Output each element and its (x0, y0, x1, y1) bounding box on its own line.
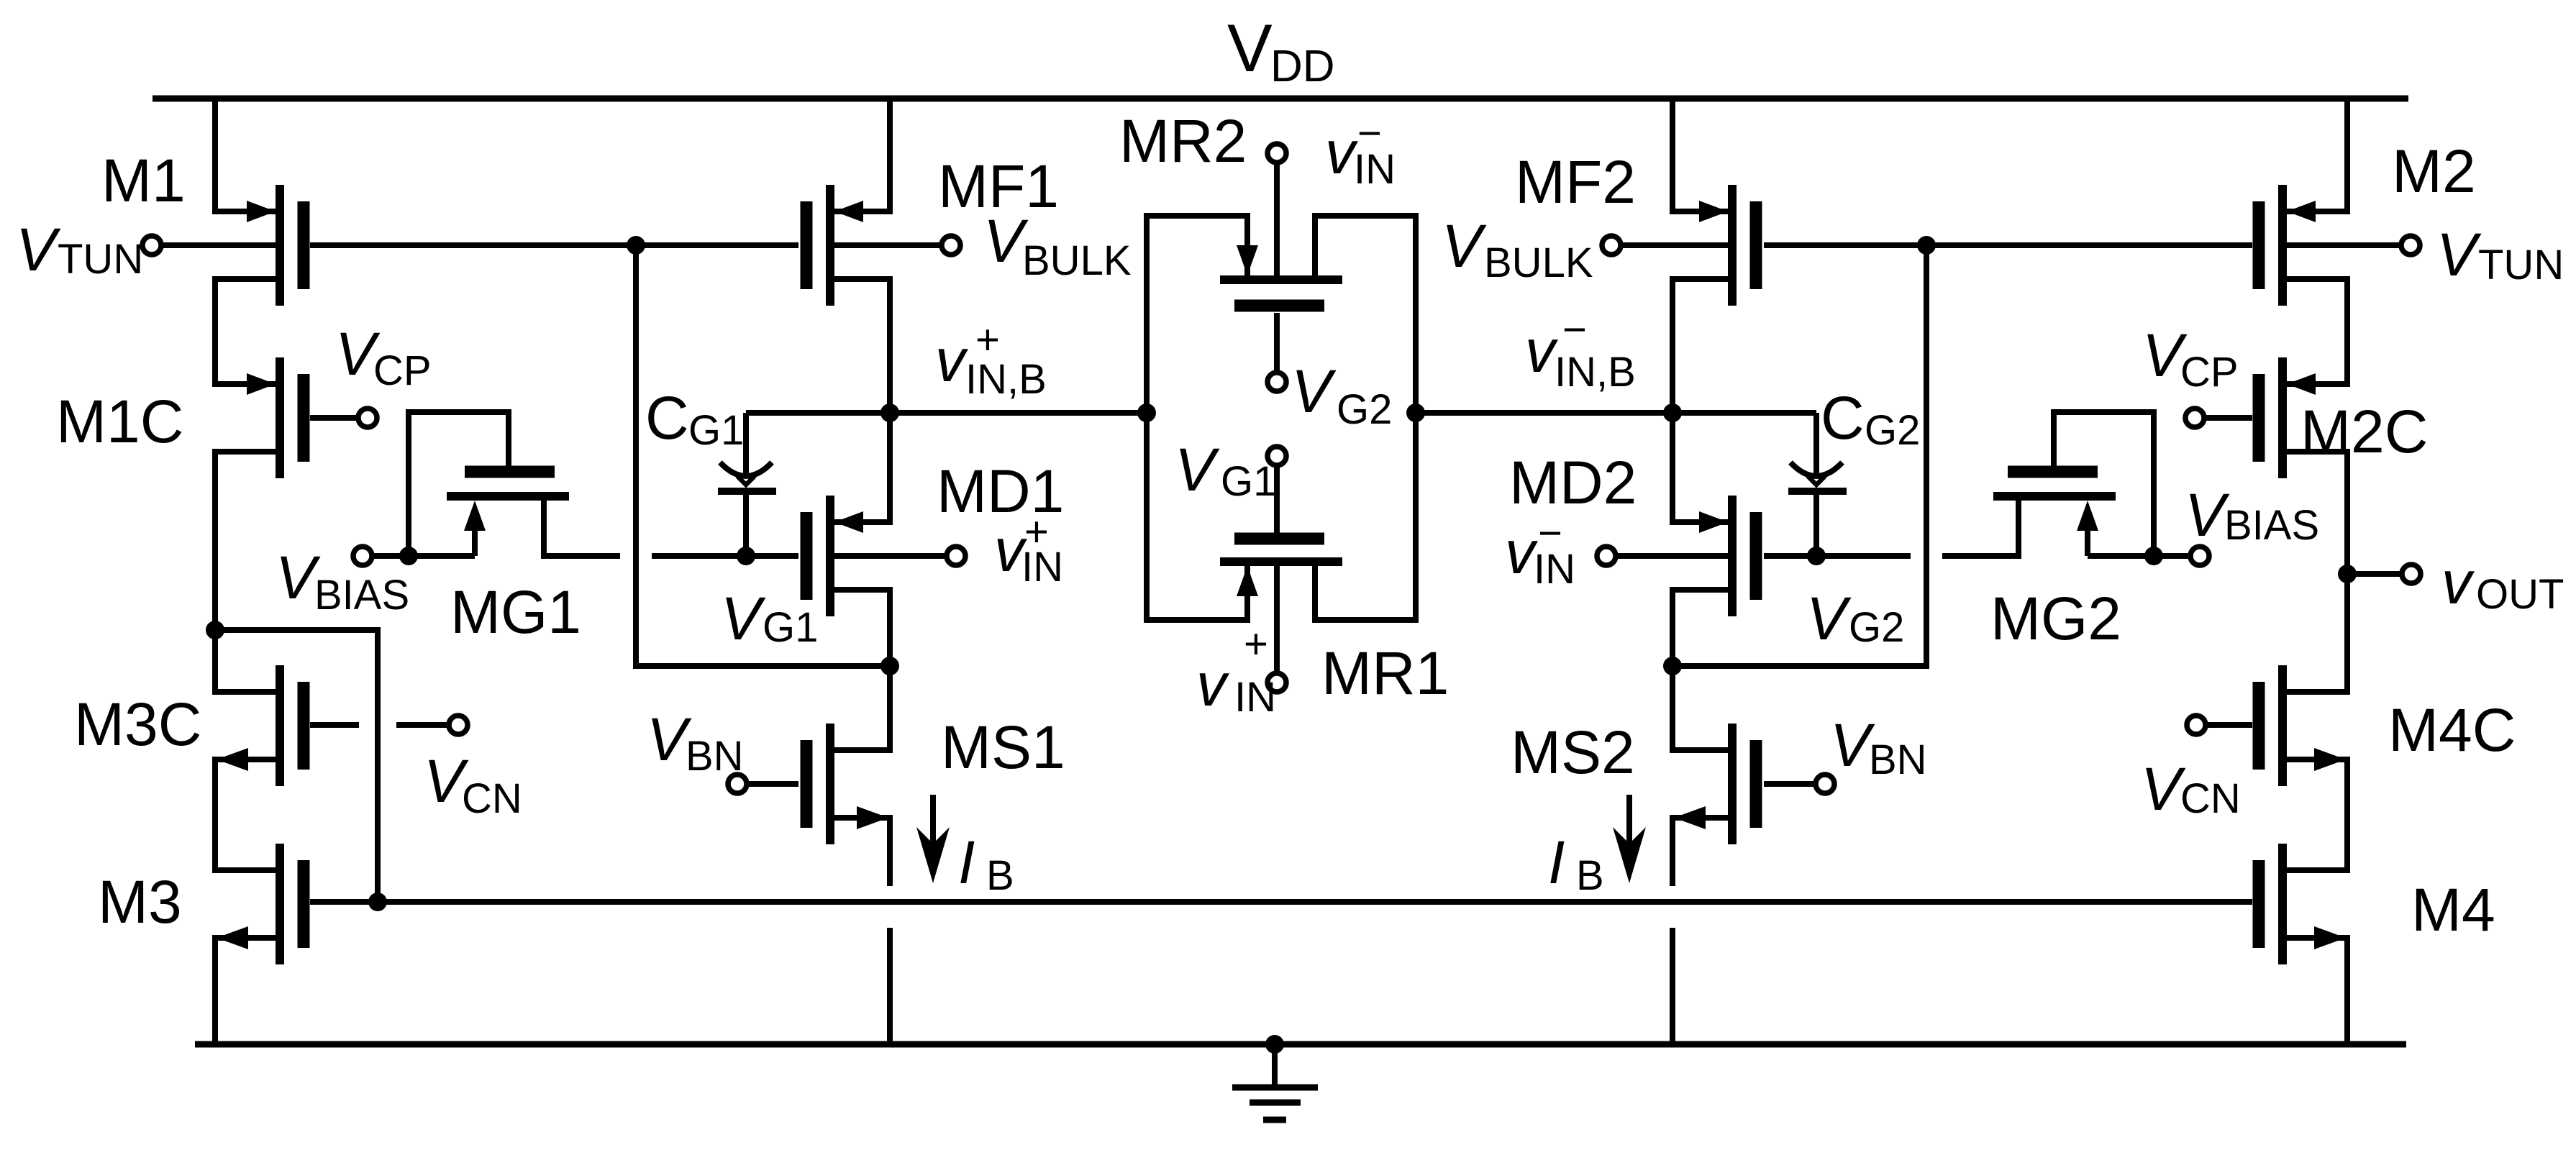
transistor MG1 channel (447, 492, 569, 501)
transistor MF1 channel (826, 185, 834, 306)
terminal vIN+ bottom (1267, 673, 1286, 692)
transistor MG1 gate loop wire (409, 412, 509, 556)
svg-text:IN: IN (1534, 546, 1575, 593)
wire vOUT terminal lead (2347, 571, 2402, 577)
junction CG2 to MD2 gate (1807, 547, 1826, 565)
transistor M3 channel (276, 844, 284, 964)
svg-text:MF2: MF2 (1515, 148, 1636, 216)
svg-text:M4: M4 (2411, 876, 2495, 944)
svg-text:M3C: M3C (74, 690, 201, 758)
wire M1C drain to node A (215, 452, 276, 630)
svg-text:DD: DD (1270, 42, 1335, 91)
junction MS1 drain node (880, 657, 899, 675)
svg-text:MR1: MR1 (1321, 639, 1449, 707)
svg-text:MR2: MR2 (1119, 107, 1247, 175)
transistor MR2 source arrow (1237, 245, 1258, 275)
capacitor CG1 bottom plate (718, 488, 776, 495)
svg-text:BIAS: BIAS (314, 572, 409, 619)
svg-text:V: V (16, 216, 61, 283)
transistor M3C channel (276, 665, 284, 786)
capacitor CG2 curved plate (1790, 462, 1842, 476)
capacitor CG2 bottom lead (1813, 494, 1819, 556)
wire MD1 drain down (834, 590, 890, 666)
junction ground stub (1265, 1035, 1284, 1054)
svg-text:M4C: M4C (2388, 696, 2516, 764)
capacitor CG2 top lead (1813, 413, 1819, 476)
transistor MF1 source arrow (834, 201, 863, 222)
svg-text:BULK: BULK (1022, 237, 1132, 284)
wire MS2 drain (1672, 666, 1728, 750)
junction VBIAS node right (2144, 547, 2163, 565)
transistor M3 gate bar (298, 860, 310, 948)
transistor M2C channel (2278, 357, 2287, 478)
transistor M4 channel (2278, 844, 2287, 964)
terminal VCN right (2187, 716, 2206, 734)
wire vINB+ node to MR1 source (1147, 413, 1247, 620)
wire M2C drain to M4C drain (2287, 452, 2347, 692)
transistor MS1 source arrow (857, 806, 888, 829)
wire vINB+ node to MR2 source (1147, 216, 1247, 413)
wire M2 drain to M2C source (2287, 279, 2347, 384)
transistor M2 bulk lead to VTUN (2287, 242, 2401, 248)
transistor MG2 channel (1993, 492, 2116, 501)
wire vIN- to MR2 (1274, 163, 1280, 275)
svg-text:V: V (2185, 481, 2230, 549)
svg-text:V: V (1175, 436, 1220, 503)
transistor MF1 gate bar (801, 201, 813, 289)
transistor MG2 gate loop wire (2054, 412, 2154, 556)
transistor MF2 source arrow (1699, 201, 1728, 222)
svg-text:B: B (986, 852, 1014, 899)
transistor M4C source arrow (2314, 748, 2346, 771)
transistor M1C source arrow (247, 373, 276, 395)
transistor M2 gate bar (2253, 201, 2265, 289)
wire M3 gate to M4 gate (310, 899, 2252, 905)
transistor M3C source arrow (217, 748, 248, 771)
junction vINB+ at MR loop (1137, 403, 1156, 422)
svg-text:M2C: M2C (2300, 398, 2428, 465)
transistor MG1 gate bar (465, 466, 555, 478)
svg-text:TUN: TUN (58, 236, 143, 283)
svg-text:CP: CP (2180, 349, 2239, 396)
wire M4 source to ground rail (2287, 938, 2347, 1044)
svg-text:V: V (1291, 357, 1337, 425)
svg-text:MG1: MG1 (450, 578, 581, 646)
svg-text:MS2: MS2 (1511, 718, 1635, 786)
svg-text:BIAS: BIAS (2224, 502, 2319, 549)
current arrow IB left (930, 795, 936, 859)
terminal VTUN left (142, 236, 161, 255)
transistor M1 source arrow (247, 201, 276, 222)
junction MS2 drain node (1663, 657, 1682, 675)
wire node C down to MS2 drain node (1672, 245, 1926, 666)
svg-text:+: + (1244, 621, 1268, 667)
current arrow IB right (1626, 795, 1632, 859)
ground symbol (1272, 1044, 1278, 1085)
svg-text:v: v (935, 327, 969, 394)
transistor MS1 gate bar (801, 740, 813, 828)
transistor MR2 gate bar (1234, 300, 1324, 312)
svg-text:IN: IN (1021, 544, 1063, 590)
svg-text:C: C (645, 384, 689, 452)
transistor MD2 gate bar (1750, 512, 1762, 600)
transistor MG2 source lead and arrow (2085, 512, 2090, 556)
transistor M4 gate bar (2253, 860, 2265, 948)
svg-text:v: v (2441, 549, 2475, 616)
transistor MF2 bulk lead (1621, 242, 1728, 248)
transistor M3C gate bar (298, 682, 310, 770)
svg-text:I: I (958, 829, 975, 896)
ground rail (195, 1041, 2406, 1048)
terminal VCP left (358, 409, 377, 427)
capacitor CG1 top lead (743, 413, 749, 476)
transistor M3 source arrow (217, 926, 248, 949)
wire M1 drain to M1C source (215, 279, 276, 384)
svg-text:TUN: TUN (2478, 242, 2564, 288)
svg-text:G2: G2 (1849, 604, 1904, 651)
transistor M2C gate bar (2253, 374, 2265, 462)
svg-text:BN: BN (686, 733, 744, 780)
wire M4C source to M4 drain (2287, 759, 2347, 870)
transistor MS2 channel (1728, 724, 1737, 844)
svg-text:OUT: OUT (2476, 571, 2564, 618)
wire VG1 to MR1 gate (1274, 466, 1280, 533)
transistor MR2 gate lead (1274, 313, 1280, 372)
junction VBIAS node left (399, 547, 418, 565)
transistor MD2 source arrow (1699, 511, 1728, 533)
terminal vOUT (2402, 565, 2421, 583)
transistor MF2 gate bar (1750, 201, 1762, 289)
svg-text:G1: G1 (763, 604, 818, 651)
svg-text:V: V (721, 585, 766, 652)
svg-text:B: B (1576, 852, 1604, 899)
transistor MD2 channel (1728, 496, 1737, 616)
svg-text:I: I (1548, 829, 1565, 896)
transistor M2C gate lead (2204, 415, 2252, 421)
svg-text:v: v (1525, 317, 1559, 385)
svg-text:M3: M3 (98, 868, 182, 936)
transistor MF2 channel (1728, 185, 1737, 306)
svg-text:CP: CP (373, 347, 432, 394)
svg-text:CN: CN (462, 775, 522, 822)
transistor MD1 gate lead from CG1 node (652, 553, 798, 559)
transistor M2C source arrow (2287, 373, 2316, 395)
transistor MD2 gate lead with hop (1764, 553, 1911, 559)
svg-text:v: v (1196, 651, 1230, 718)
svg-text:BULK: BULK (1484, 239, 1593, 286)
svg-text:G1: G1 (1221, 458, 1276, 505)
terminal VG1 center (1267, 447, 1286, 465)
transistor MF2 gate lead to M2 gate (1764, 242, 2252, 248)
transistor MS1 gate lead (748, 781, 798, 787)
junction vINB- at MF2 drain (1663, 403, 1682, 422)
terminal VBN right (1816, 775, 1834, 793)
transistor MD1 source arrow (834, 511, 863, 533)
svg-text:−: − (1562, 306, 1587, 353)
svg-text:C: C (1821, 384, 1865, 452)
wire M3 source to ground rail (215, 938, 276, 1044)
svg-text:M2: M2 (2392, 137, 2476, 205)
transistor M4C gate bar (2253, 682, 2265, 770)
terminal VBN left (728, 775, 747, 793)
transistor M1C gate lead (310, 415, 358, 421)
transistor MS2 gate lead (1764, 781, 1816, 787)
transistor MR2 channel (1220, 275, 1342, 284)
transistor M4 source arrow (2314, 926, 2346, 949)
terminal vIN- at MD2 (1597, 547, 1616, 565)
capacitor CG1 bottom lead (743, 494, 749, 556)
wire node vINB- line (1416, 410, 1816, 416)
wire M1 gate to MF1 gate (310, 242, 798, 248)
junction vINB+ at MF1 drain (880, 403, 899, 422)
transistor MD1 channel (826, 496, 834, 616)
terminal VBIAS left (353, 547, 372, 565)
svg-text:V: V (1806, 585, 1852, 652)
node C junction on gate line (1917, 236, 1936, 255)
svg-text:G2: G2 (1865, 407, 1920, 454)
terminal VG2 center (1267, 373, 1286, 391)
transistor MD1 gate bar (801, 512, 813, 600)
wire node A to M3 gate (diode connection) (215, 630, 378, 902)
terminal VBIAS right (2190, 547, 2209, 565)
svg-text:G1: G1 (688, 407, 744, 454)
svg-text:MS1: MS1 (941, 713, 1065, 781)
transistor M1 gate bar (298, 201, 310, 289)
wire node vINB+ line (746, 410, 1147, 416)
svg-text:IN,B: IN,B (1555, 349, 1636, 396)
transistor MF1 bulk lead (834, 242, 942, 248)
transistor MS2 source arrow (1674, 806, 1706, 829)
transistor MG1 drain lead with hop (544, 501, 620, 556)
junction at M3 gate (368, 893, 387, 911)
terminal VBULK left (942, 236, 960, 255)
transistor MS1 channel (826, 724, 834, 844)
svg-text:V: V (1227, 10, 1273, 86)
capacitor CG2 bottom plate (1788, 488, 1847, 495)
transistor M4C channel (2278, 665, 2287, 786)
wire MS1 drain (834, 666, 890, 750)
transistor M1 channel (276, 185, 284, 306)
terminal VCP right (2185, 409, 2204, 427)
transistor MS2 source lead (1672, 818, 1728, 886)
svg-text:MD2: MD2 (1509, 449, 1637, 516)
junction vINB- at MR loop (1406, 403, 1425, 422)
svg-text:G2: G2 (1337, 386, 1392, 433)
transistor MG2 drain lead with hop (1942, 501, 2019, 556)
wire MS1 source to ground rail after hop (887, 928, 893, 1044)
svg-text:V: V (1442, 212, 1487, 280)
transistor MG2 gate bar (2008, 466, 2098, 478)
wire MR1 to vIN+ terminal (1274, 566, 1280, 672)
transistor M3C gate lead with hop over diode wire (310, 722, 359, 728)
transistor M1C channel (276, 357, 284, 478)
wire VDD rail to M1 source (215, 97, 276, 211)
transistor M2 source arrow (2287, 201, 2316, 222)
transistor MD2 bulk lead (1616, 553, 1728, 559)
wire MF2 drain to node vINB- (1672, 279, 1728, 413)
transistor M2 channel (2278, 185, 2287, 306)
transistor MS1 source lead (834, 818, 890, 886)
transistor MG1 source lead and arrow (472, 512, 478, 556)
terminal vIN- top (1267, 144, 1286, 163)
svg-text:CN: CN (2180, 775, 2241, 822)
svg-text:V: V (2141, 755, 2186, 823)
wire MD1 source to node vINB+ (834, 413, 890, 522)
svg-text:M1: M1 (101, 147, 186, 214)
transistor M4C gate lead (2206, 722, 2252, 728)
svg-text:V: V (2436, 221, 2482, 288)
wire VDD rail to M2 source (2287, 97, 2347, 211)
capacitor CG1 curved plate (720, 462, 772, 476)
wire node B down to MS1 drain node (636, 245, 890, 666)
terminal VCN left (449, 716, 468, 734)
node B junction on gate line (627, 236, 645, 255)
svg-text:BN: BN (1869, 736, 1927, 783)
transistor MR1 channel (1220, 557, 1342, 566)
node A junction (206, 621, 224, 639)
wire MR1 drain to node vINB- (1315, 413, 1416, 620)
terminal VTUN right (2401, 236, 2420, 255)
wire node A to M3C drain (215, 630, 276, 692)
wire MD2 source to node vINB- (1672, 413, 1728, 522)
svg-text:IN: IN (1234, 674, 1276, 721)
junction vOUT node (2338, 565, 2357, 583)
svg-text:MG2: MG2 (1990, 585, 2121, 652)
svg-text:IN,B: IN,B (965, 356, 1047, 403)
transistor M1 bulk lead to VTUN (161, 242, 276, 248)
svg-text:M1C: M1C (56, 388, 183, 455)
VDD power rail (153, 96, 2408, 102)
junction CG1 to MD1 gate (737, 547, 755, 565)
transistor MR1 gate bar (1234, 533, 1324, 545)
transistor MD1 bulk lead (834, 553, 947, 559)
terminal vIN+ at MD1 (947, 547, 965, 565)
terminal VBULK right (1602, 236, 1621, 255)
transistor MS2 gate bar (1750, 740, 1762, 828)
wire MD2 drain down (1672, 590, 1728, 666)
transistor MR1 source arrow (1237, 566, 1258, 596)
svg-text:IN: IN (1354, 146, 1396, 193)
wire MR2 drain to node vINB- (1315, 216, 1416, 413)
wire VDD to MF2 source (1672, 97, 1728, 211)
wire VDD to MF1 source (834, 97, 890, 211)
wire MS2 source to ground rail after hop (1670, 928, 1675, 1044)
wire MF1 drain to node vINB+ (834, 279, 890, 413)
transistor M1C gate bar (298, 374, 310, 462)
wire M3C source to M3 drain (215, 759, 276, 870)
